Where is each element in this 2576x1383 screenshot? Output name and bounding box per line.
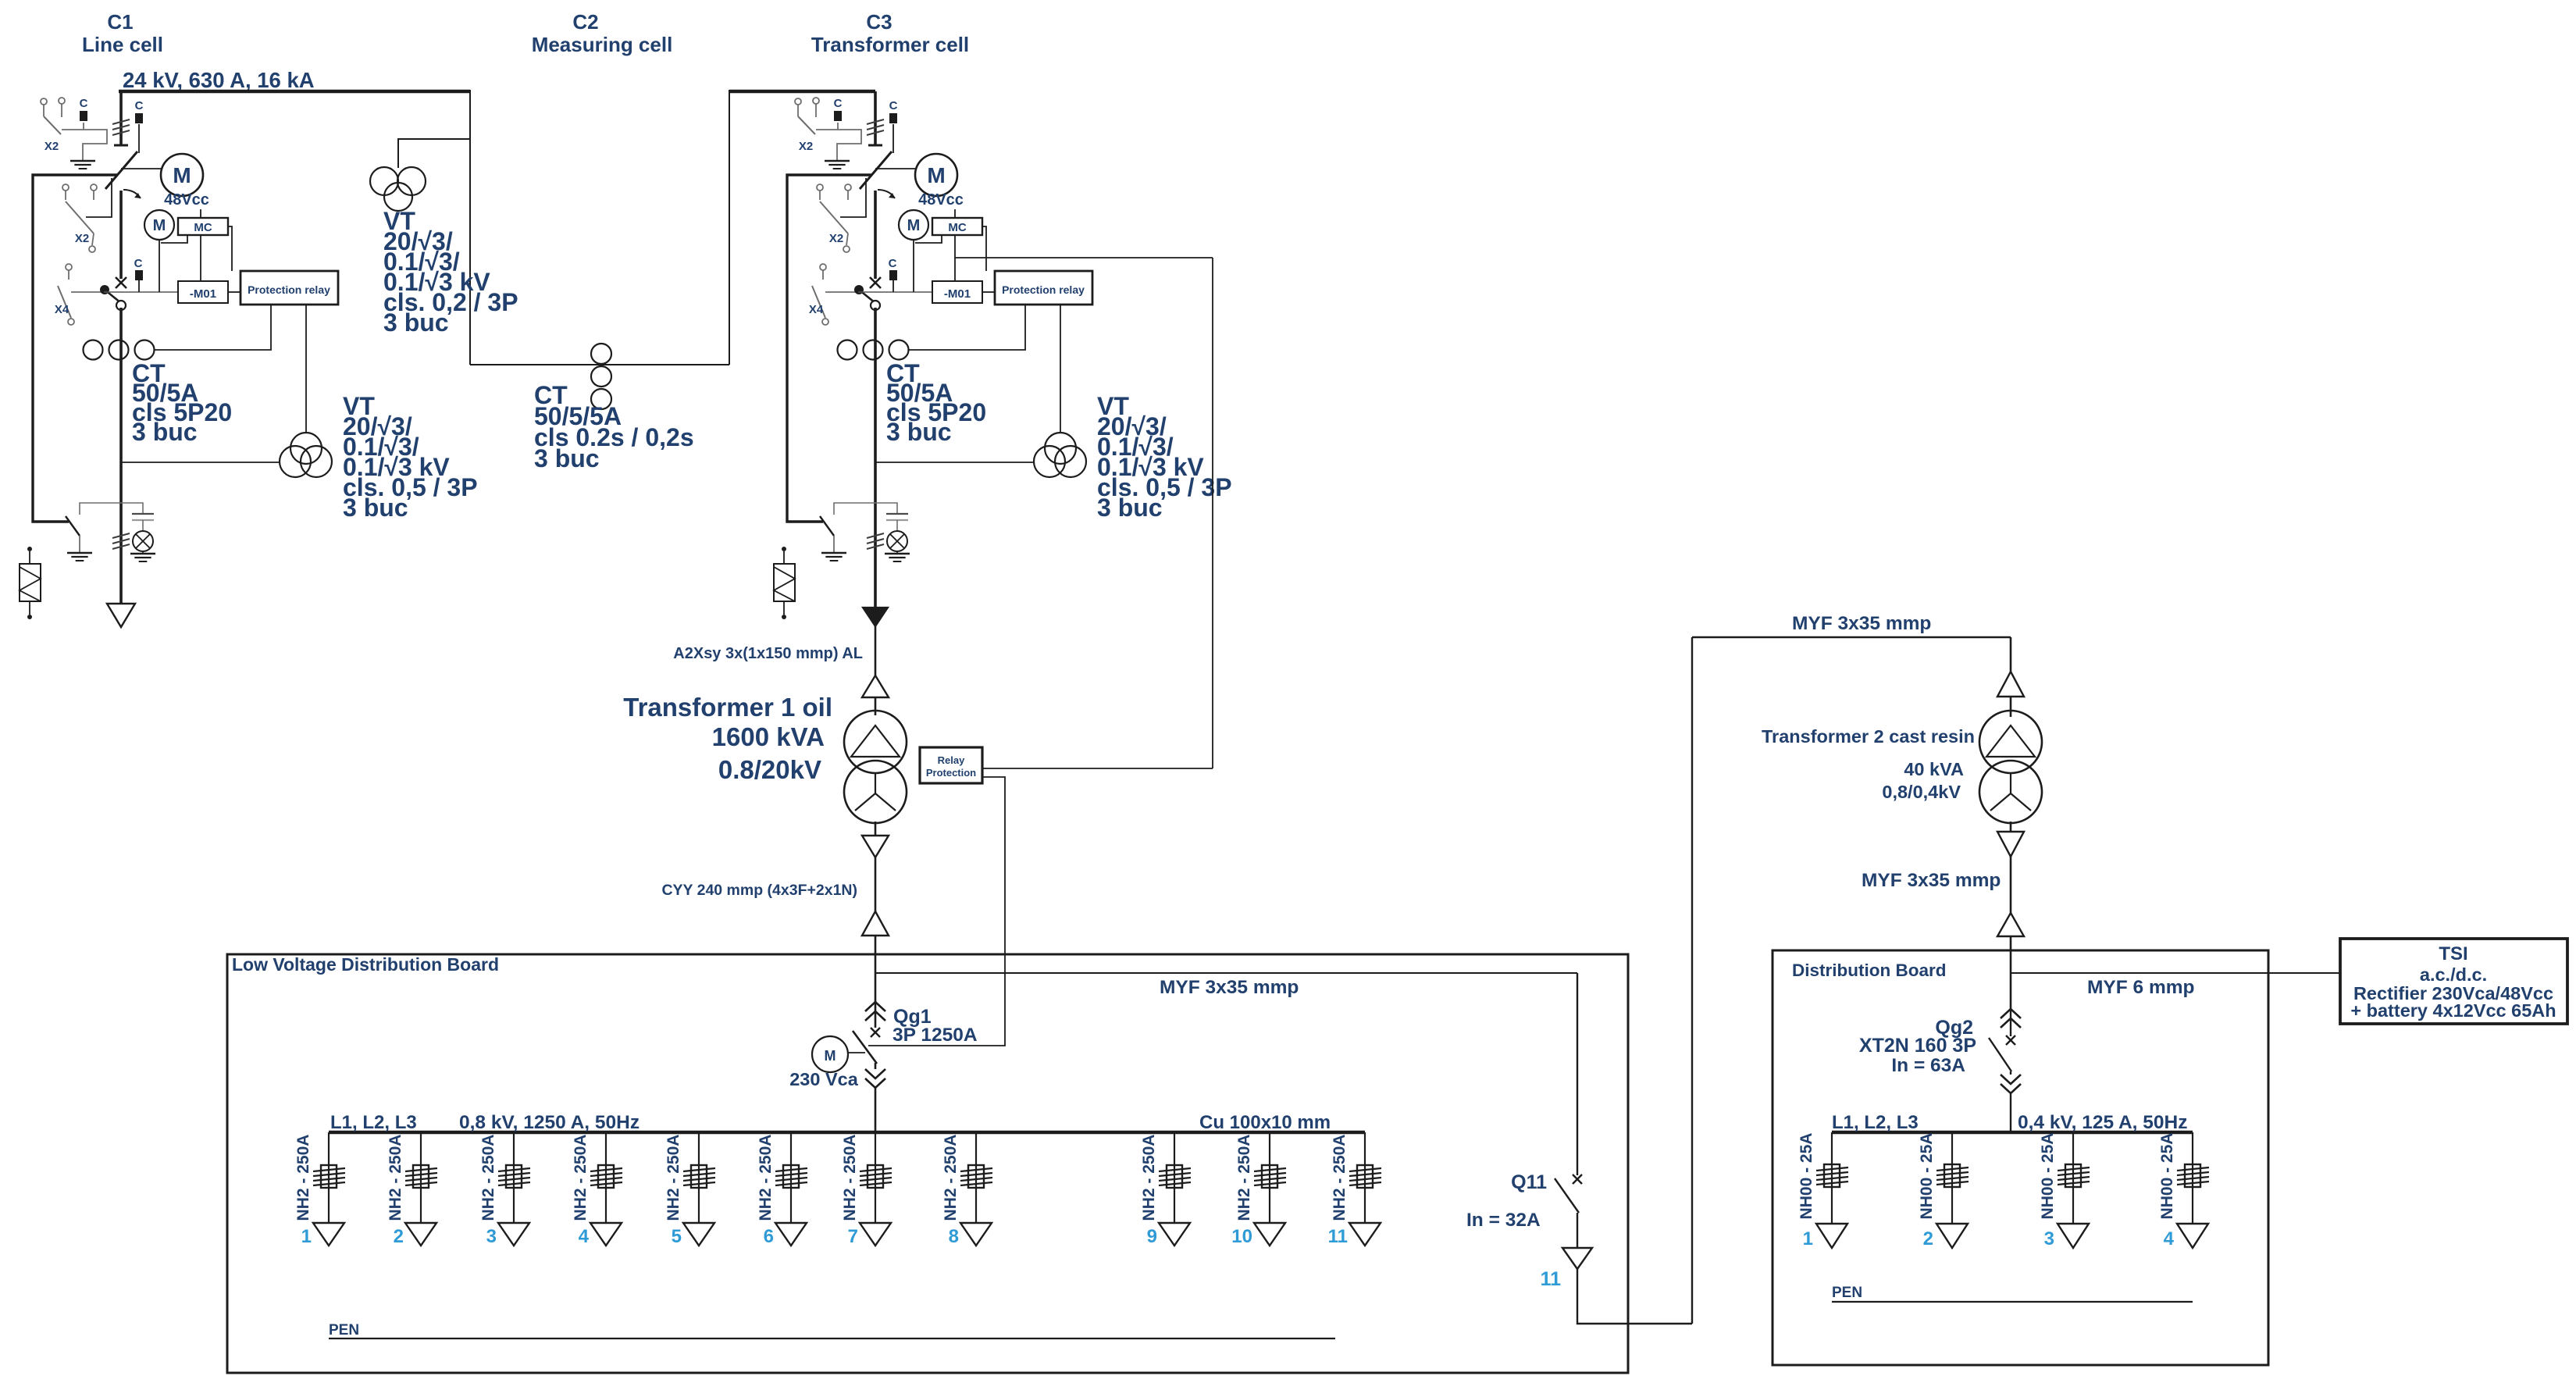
svg-text:Protection: Protection xyxy=(926,767,976,779)
svg-text:Protection relay: Protection relay xyxy=(248,283,330,296)
protection relay box C1 xyxy=(240,271,338,305)
LV feeder 10 NH2 fuse xyxy=(1262,1165,1277,1188)
capacitive divider hash marks C3 xyxy=(867,119,884,124)
LV feeder 1 NH2 fuse xyxy=(321,1165,337,1188)
circuit breaker C1 xyxy=(116,277,126,288)
earthing switch blade C3 xyxy=(820,516,834,536)
svg-text:2: 2 xyxy=(394,1226,404,1247)
TSI rectifier box xyxy=(2340,939,2567,1024)
svg-text:NH00 - 25A: NH00 - 25A xyxy=(2158,1133,2176,1220)
svg-text:CYY 240 mmp (4x3F+2x1N): CYY 240 mmp (4x3F+2x1N) xyxy=(661,882,857,899)
busbar C1 xyxy=(119,90,470,93)
svg-text:A2Xsy 3x(1x150 mmp) AL: A2Xsy 3x(1x150 mmp) AL xyxy=(673,645,863,662)
svg-text:7: 7 xyxy=(848,1226,858,1247)
wire MYF 3x35 top run xyxy=(1692,636,2011,638)
cable arrow Q11 xyxy=(1562,1248,1592,1269)
LV feeder 7 NH2 fuse xyxy=(868,1165,883,1188)
wire main feeder lower segment C3 xyxy=(874,308,877,609)
wire M small to MC C1 xyxy=(161,235,187,243)
svg-text:0,4 kV, 125 A, 50Hz: 0,4 kV, 125 A, 50Hz xyxy=(2018,1112,2187,1133)
svg-text:NH2 - 250A: NH2 - 250A xyxy=(572,1135,590,1221)
LV feeder 3 NH2 fuse xyxy=(506,1165,522,1188)
LV feeder 11 NH2 fuse xyxy=(1357,1165,1373,1188)
disconnector blade C1 xyxy=(105,151,137,189)
svg-text:11: 11 xyxy=(1328,1226,1348,1247)
svg-text:3 buc: 3 buc xyxy=(886,418,952,446)
wire main feeder mid segment C1 xyxy=(119,191,123,279)
svg-text:NH2 - 250A: NH2 - 250A xyxy=(387,1135,404,1221)
LV feeder 9 NH2 fuse xyxy=(1167,1165,1182,1188)
LV feeder 5 arrow xyxy=(683,1223,714,1246)
DB feeder 4 wire xyxy=(2192,1132,2193,1224)
svg-text:In = 63A: In = 63A xyxy=(1891,1055,1965,1076)
svg-text:Transformer cell: Transformer cell xyxy=(811,33,969,56)
svg-text:3 buc: 3 buc xyxy=(1097,494,1163,522)
transformer T2 primary winding xyxy=(1979,711,2042,773)
indicator lamp C3 xyxy=(887,531,907,551)
voltage transformer VT circles C3 xyxy=(1045,433,1076,464)
DB busbar xyxy=(1832,1131,2193,1135)
svg-text:NH2 - 250A: NH2 - 250A xyxy=(942,1135,960,1221)
lamp ground C3 xyxy=(896,551,898,553)
wire Q11 drop xyxy=(1577,973,1578,1175)
cable arrow terminal C3 xyxy=(863,608,888,626)
svg-text:MYF 3x35 mmp: MYF 3x35 mmp xyxy=(1160,977,1299,998)
cable arrow up CYY xyxy=(862,911,889,936)
svg-text:1: 1 xyxy=(1803,1228,1813,1249)
svg-text:NH2 - 250A: NH2 - 250A xyxy=(841,1135,859,1221)
svg-text:3 buc: 3 buc xyxy=(534,444,600,472)
svg-text:NH00 - 25A: NH00 - 25A xyxy=(1918,1133,1936,1220)
wire M01 to protection relay C1 xyxy=(228,291,240,293)
svg-text:NH2 - 250A: NH2 - 250A xyxy=(757,1135,775,1221)
circuit breaker Qg2 chevrons top xyxy=(2001,1009,2021,1018)
wire MC to protection relay C3 xyxy=(982,226,986,271)
wire relay protection to C3 loop xyxy=(982,768,1213,769)
svg-text:24 kV, 630 A, 16 kA: 24 kV, 630 A, 16 kA xyxy=(123,68,315,92)
svg-text:1600 kVA: 1600 kVA xyxy=(712,722,825,751)
svg-text:X4: X4 xyxy=(809,303,824,316)
low voltage distribution board enclosure xyxy=(227,954,1628,1373)
svg-text:X2: X2 xyxy=(799,140,813,153)
svg-text:C: C xyxy=(834,97,843,110)
wire M01 to protection relay C3 xyxy=(982,291,995,293)
svg-text:Protection relay: Protection relay xyxy=(1002,283,1085,296)
svg-text:L1, L2, L3: L1, L2, L3 xyxy=(1832,1112,1919,1133)
LV feeder 6 arrow xyxy=(775,1223,807,1246)
LV feeder 2 arrow xyxy=(405,1223,436,1246)
wire C2 riser to C3 busbar xyxy=(729,90,730,365)
LV feeder 11 arrow xyxy=(1349,1223,1381,1246)
earthing switch bracket C1 xyxy=(80,503,143,515)
svg-text:3: 3 xyxy=(2044,1228,2054,1249)
wire disconnector to motor M C1 xyxy=(121,168,161,169)
wire MC top stub C3 xyxy=(954,209,956,218)
wire C3 MC to transformer relay loop top xyxy=(955,257,1213,258)
svg-text:-M01: -M01 xyxy=(190,287,216,301)
module -M01 box C3 xyxy=(932,281,982,303)
wire transformer 2 feeder xyxy=(2010,637,2012,717)
current transformer CT C2 xyxy=(591,344,611,364)
wire VT tap C3 xyxy=(875,462,1035,463)
wire DB feeder upper xyxy=(2010,954,2012,1009)
LV feeder 8 NH2 fuse xyxy=(968,1165,984,1188)
LV feeder 9 arrow xyxy=(1159,1223,1190,1246)
svg-text:XT2N 160 3P: XT2N 160 3P xyxy=(1859,1035,1976,1057)
svg-text:C2: C2 xyxy=(572,10,598,34)
svg-text:C: C xyxy=(889,99,898,112)
bypass wire C3 xyxy=(787,175,871,522)
svg-text:X2: X2 xyxy=(45,140,59,153)
wire M small to MC C3 xyxy=(915,235,942,243)
svg-text:MC: MC xyxy=(948,221,966,234)
ground symbol X2 upper C3 xyxy=(825,160,850,162)
svg-text:Low Voltage Distribution Board: Low Voltage Distribution Board xyxy=(232,954,499,975)
lamp ground C1 xyxy=(142,551,144,553)
wire C2 horizontal run xyxy=(470,364,729,365)
earthing switch ground C1 xyxy=(67,552,92,554)
wire X4 to breaker C1 xyxy=(71,291,104,293)
wire C2 VT elbow xyxy=(398,139,470,168)
svg-text:M: M xyxy=(907,217,921,234)
protection relay box C3 xyxy=(995,271,1092,305)
wire C2 drop from C1 busbar xyxy=(469,90,471,365)
wire M to Qg1 xyxy=(848,1052,865,1053)
wire main feeder mid segment C3 xyxy=(874,191,877,279)
svg-text:10: 10 xyxy=(1231,1226,1252,1247)
LV feeder 7 wire xyxy=(875,1132,876,1223)
svg-text:3 buc: 3 buc xyxy=(343,494,408,522)
svg-text:1: 1 xyxy=(301,1226,312,1247)
LV feeder 4 NH2 fuse xyxy=(598,1165,614,1188)
contactor MC box C1 xyxy=(178,218,228,235)
svg-text:40 kVA: 40 kVA xyxy=(1904,759,1964,779)
svg-text:4: 4 xyxy=(2164,1228,2175,1249)
wire transformer 1 feeder upper xyxy=(875,626,877,715)
LV feeder 5 NH2 fuse xyxy=(691,1165,707,1188)
wire X4 to breaker C3 xyxy=(825,291,858,293)
auxiliary contact X4 C1 xyxy=(66,264,72,270)
svg-text:Relay: Relay xyxy=(938,754,965,766)
LV feeder 1 wire xyxy=(328,1132,330,1223)
svg-text:PEN: PEN xyxy=(1832,1285,1862,1301)
auxiliary contacts X2 upper C3 xyxy=(795,98,801,105)
LV feeder 6 NH2 fuse xyxy=(783,1165,799,1188)
motor M 48Vcc circle C1 xyxy=(161,154,203,196)
svg-text:C: C xyxy=(135,99,144,112)
surge arrester C3 xyxy=(782,547,786,551)
svg-text:TSI: TSI xyxy=(2439,943,2467,964)
ground symbol X2 upper C1 xyxy=(70,160,95,162)
svg-text:Transformer 1 oil: Transformer 1 oil xyxy=(623,693,832,722)
wire protection relay to VT C3 xyxy=(1060,305,1061,433)
capacitive divider hash marks C1 xyxy=(112,119,130,124)
DB feeder 3 NH00 fuse xyxy=(2065,1164,2081,1187)
cable arrow up T2 lower xyxy=(1997,913,2024,936)
distribution board enclosure xyxy=(1773,950,2268,1365)
circuit breaker Qg1 drawout chevrons bottom xyxy=(865,1069,885,1078)
svg-text:a.c./d.c.: a.c./d.c. xyxy=(2420,964,2487,985)
LV feeder 8 arrow xyxy=(960,1223,992,1246)
svg-text:2: 2 xyxy=(1923,1228,1933,1249)
svg-text:C3: C3 xyxy=(866,10,892,34)
surge arrester C1 xyxy=(27,547,32,551)
PEN conductor LV xyxy=(329,1338,1335,1339)
svg-text:NH2 - 250A: NH2 - 250A xyxy=(294,1135,312,1221)
svg-text:M: M xyxy=(927,163,945,187)
wire main feeder lower segment C1 xyxy=(119,308,123,605)
wire T2 secondary lead xyxy=(2010,822,2012,954)
wire breaker auxiliary row C3 xyxy=(858,291,932,293)
svg-text:MYF 6 mmp: MYF 6 mmp xyxy=(2087,977,2195,998)
DB feeder 1 arrow xyxy=(1816,1224,1847,1248)
DB feeder 2 arrow xyxy=(1936,1224,1968,1248)
svg-text:NH2 - 250A: NH2 - 250A xyxy=(664,1135,682,1221)
cable arrow up A2Xsy xyxy=(862,675,889,697)
motor M 48Vcc circle C3 xyxy=(915,154,957,196)
LV feeder 10 arrow xyxy=(1254,1223,1285,1246)
wire riser to transformer 2 xyxy=(1691,637,1693,1324)
wire breaker auxiliary row C1 xyxy=(104,291,178,293)
svg-text:0,8 kV, 1250 A, 50Hz: 0,8 kV, 1250 A, 50Hz xyxy=(459,1112,640,1133)
wire disconnector to motor M C3 xyxy=(875,168,915,169)
cable arrow terminal C1 xyxy=(107,604,135,627)
svg-text:8: 8 xyxy=(949,1226,959,1247)
DB feeder 1 wire xyxy=(1831,1132,1833,1224)
DB feeder 4 arrow xyxy=(2177,1224,2208,1248)
switch Q11 contact xyxy=(1573,1174,1582,1184)
voltage transformer VT C2 xyxy=(370,167,398,195)
svg-text:NH2 - 250A: NH2 - 250A xyxy=(1140,1135,1158,1221)
wire MYF 6 mmp to TSI xyxy=(2011,972,2340,974)
svg-text:6: 6 xyxy=(764,1226,774,1247)
DB feeder 2 wire xyxy=(1951,1132,1953,1224)
cable arrow down CYY xyxy=(862,836,889,857)
svg-text:NH00 - 25A: NH00 - 25A xyxy=(1797,1133,1815,1220)
LV feeder 6 wire xyxy=(790,1132,792,1223)
busbar C3 xyxy=(729,90,875,93)
svg-text:Distribution Board: Distribution Board xyxy=(1792,961,1947,980)
LV feeder 7 arrow xyxy=(860,1223,891,1246)
PEN conductor DB xyxy=(1832,1301,2193,1303)
svg-text:NH00 - 25A: NH00 - 25A xyxy=(2039,1133,2057,1220)
LV feeder 5 wire xyxy=(698,1132,700,1223)
svg-text:NH2 - 250A: NH2 - 250A xyxy=(1331,1135,1349,1221)
svg-text:C: C xyxy=(134,257,143,270)
LV feeder 1 arrow xyxy=(313,1223,344,1246)
LV feeder 4 wire xyxy=(605,1132,607,1223)
LV feeder 9 wire xyxy=(1174,1132,1175,1223)
svg-text:48Vcc: 48Vcc xyxy=(918,191,964,209)
wire: main feeder upper segment C1 xyxy=(119,91,123,145)
motor M small circle C3 xyxy=(899,210,928,240)
svg-text:Line cell: Line cell xyxy=(82,33,163,56)
LV feeder 3 wire xyxy=(513,1132,515,1223)
svg-text:NH2 - 250A: NH2 - 250A xyxy=(479,1135,497,1221)
LV feeder 10 wire xyxy=(1269,1132,1270,1223)
LV feeder 8 wire xyxy=(975,1132,977,1223)
LV feeder 2 wire xyxy=(420,1132,422,1223)
wire M small to M01 row C3 xyxy=(913,240,914,292)
transformer T2 delta symbol xyxy=(1986,725,2035,757)
svg-text:3: 3 xyxy=(486,1226,497,1247)
LV feeder 11 wire xyxy=(1364,1132,1366,1223)
transformer T1 wye symbol xyxy=(875,773,876,793)
current transformer CT circles C3 xyxy=(838,340,857,360)
wire MC to M01 C3 xyxy=(954,235,956,281)
LV main busbar xyxy=(329,1131,1365,1135)
relay protection box T1 xyxy=(920,747,982,783)
svg-text:Transformer 2 cast resin: Transformer 2 cast resin xyxy=(1762,726,1975,747)
svg-text:3 buc: 3 buc xyxy=(132,418,198,446)
svg-text:In = 32A: In = 32A xyxy=(1466,1210,1541,1231)
earthing switch bracket C3 xyxy=(834,503,897,515)
LV feeder 2 NH2 fuse xyxy=(413,1165,429,1188)
wire MC top stub C1 xyxy=(200,209,201,218)
circuit breaker C3 xyxy=(870,277,881,288)
svg-text:MC: MC xyxy=(194,221,212,234)
wire protection relay to VT C1 xyxy=(305,305,307,433)
spring charge arrow C3 xyxy=(878,190,895,198)
svg-text:C: C xyxy=(80,97,88,110)
circuit breaker Qg2 chevrons bottom xyxy=(2001,1075,2021,1084)
circuit breaker Qg2 contact xyxy=(2006,1035,2015,1045)
cable arrow down T2 xyxy=(1997,832,2024,857)
svg-text:M: M xyxy=(173,163,191,187)
motor M small circle C1 xyxy=(144,210,174,240)
transformer T1 delta symbol xyxy=(851,725,900,757)
svg-text:M: M xyxy=(153,217,166,234)
feeder hash marks lower C3 xyxy=(867,533,884,538)
svg-text:Measuring cell: Measuring cell xyxy=(532,33,673,56)
capacitor plates C3 xyxy=(886,513,908,515)
wire MC to protection relay C1 xyxy=(228,226,232,271)
wire MC to M01 C1 xyxy=(200,235,201,281)
transformer T2 wye symbol xyxy=(2010,773,2011,793)
LV feeder 4 arrow xyxy=(590,1223,622,1246)
transformer T1 primary winding xyxy=(844,711,907,773)
svg-text:C1: C1 xyxy=(107,10,133,34)
auxiliary contacts X2 lower C3 xyxy=(817,184,823,191)
wire M small to M01 row C1 xyxy=(159,240,160,292)
svg-text:C: C xyxy=(889,257,897,270)
circuit breaker Qg2 blade xyxy=(1989,1038,2011,1071)
wire transformer relay loop right xyxy=(1212,258,1213,768)
wire transformer to Qg1 xyxy=(875,954,877,1002)
svg-text:5: 5 xyxy=(672,1226,682,1247)
DB feeder 1 NH00 fuse xyxy=(1824,1164,1840,1187)
svg-text:11: 11 xyxy=(1541,1268,1562,1290)
DB feeder 2 NH00 fuse xyxy=(1944,1164,1960,1187)
DB feeder 4 NH00 fuse xyxy=(2185,1164,2200,1187)
current transformer CT circles C1 xyxy=(84,340,103,360)
svg-text:Q11: Q11 xyxy=(1511,1171,1547,1193)
svg-text:NH2 - 250A: NH2 - 250A xyxy=(1235,1135,1253,1221)
wire MYF 3x35 to Q11 xyxy=(875,972,1577,974)
wire Qg1 to busbar xyxy=(875,1088,877,1132)
transformer T2 secondary winding xyxy=(1979,761,2042,823)
capacitor plates C1 xyxy=(132,513,154,515)
earthing switch blade C1 xyxy=(66,516,80,536)
LV feeder 3 arrow xyxy=(498,1223,529,1246)
wire: main feeder upper segment C3 xyxy=(874,91,877,145)
svg-text:230 Vca: 230 Vca xyxy=(789,1069,858,1089)
svg-text:4: 4 xyxy=(579,1226,590,1247)
spring charge arrow C1 xyxy=(123,190,141,198)
wire protection relay to CT C3 xyxy=(908,305,1025,350)
earthing switch ground C3 xyxy=(821,552,846,554)
svg-text:0,8/0,4kV: 0,8/0,4kV xyxy=(1882,782,1961,802)
svg-text:L1, L2, L3: L1, L2, L3 xyxy=(330,1112,417,1133)
module -M01 box C1 xyxy=(178,281,228,303)
disconnector blade C3 xyxy=(860,151,892,189)
wire Q11 to riser xyxy=(1577,1269,1692,1324)
indicator lamp C1 xyxy=(133,531,153,551)
wire Qg2 to DB busbar xyxy=(2010,1093,2011,1132)
svg-text:0.8/20kV: 0.8/20kV xyxy=(718,755,821,784)
wire VT tap C1 xyxy=(121,462,280,463)
bypass wire C1 xyxy=(33,175,117,522)
wire relay protection to Qg1 xyxy=(868,777,1005,1046)
svg-text:X4: X4 xyxy=(55,303,69,316)
svg-text:-M01: -M01 xyxy=(944,287,971,301)
cable arrow up T2 xyxy=(1997,672,2024,697)
DB feeder 3 arrow xyxy=(2058,1224,2089,1248)
DB feeder 3 wire xyxy=(2072,1132,2074,1224)
disconnector fixed contact C1 xyxy=(114,144,128,147)
circuit breaker Qg1 contact xyxy=(871,1028,880,1037)
disconnector fixed contact C3 xyxy=(868,144,882,147)
svg-text:X2: X2 xyxy=(829,232,843,245)
circuit breaker Qg1 drawout chevrons top xyxy=(865,1002,885,1011)
transformer T1 secondary winding xyxy=(844,761,907,823)
auxiliary contacts X2 upper C1 xyxy=(41,98,47,105)
wire protection relay to CT C1 xyxy=(154,305,271,350)
svg-text:48Vcc: 48Vcc xyxy=(164,191,209,209)
switch Q11 blade xyxy=(1555,1178,1579,1213)
motor M Qg1 xyxy=(812,1036,848,1072)
feeder hash marks lower C1 xyxy=(112,533,130,538)
svg-text:M: M xyxy=(825,1048,836,1064)
svg-text:PEN: PEN xyxy=(329,1322,359,1338)
svg-text:X2: X2 xyxy=(75,232,89,245)
auxiliary contact X4 C3 xyxy=(820,264,826,270)
auxiliary contacts X2 lower C1 xyxy=(62,184,69,191)
contactor MC box C3 xyxy=(932,218,982,235)
svg-text:MYF 3x35 mmp: MYF 3x35 mmp xyxy=(1862,870,2001,891)
svg-text:MYF 3x35 mmp: MYF 3x35 mmp xyxy=(1792,613,1931,634)
circuit breaker Qg1 blade xyxy=(853,1031,877,1064)
svg-text:+ battery 4x12Vcc 65Ah: + battery 4x12Vcc 65Ah xyxy=(2350,1000,2556,1021)
svg-text:9: 9 xyxy=(1147,1226,1157,1247)
svg-text:3P 1250A: 3P 1250A xyxy=(893,1025,978,1046)
wire transformer 1 secondary lead xyxy=(875,822,877,954)
wire Q11 lower xyxy=(1577,1213,1578,1248)
voltage transformer VT circles C1 xyxy=(290,433,322,464)
svg-text:Cu 100x10 mm: Cu 100x10 mm xyxy=(1199,1112,1331,1133)
svg-text:3 buc: 3 buc xyxy=(383,308,449,337)
